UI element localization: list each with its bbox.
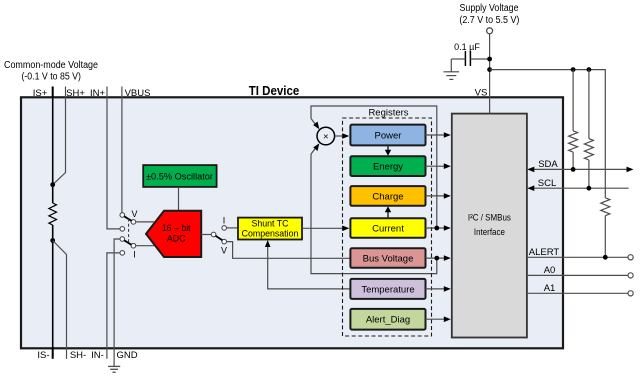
node ALERT R3	[603, 255, 608, 260]
register Current	[350, 218, 425, 238]
ground symbol	[108, 366, 120, 372]
wire SH- with slant	[53, 241, 67, 348]
wire supply rail	[490, 70, 606, 198]
register Temperature	[350, 279, 425, 299]
wire temperature to compensation	[268, 242, 351, 289]
svg-text:I: I	[223, 216, 226, 226]
svg-text:IS-: IS-	[37, 350, 49, 361]
svg-text:I: I	[133, 250, 136, 260]
node rail R1	[571, 67, 576, 72]
svg-text:V: V	[131, 209, 137, 219]
switch V select	[120, 213, 136, 232]
wire A0	[527, 274, 628, 276]
svg-text:A0: A0	[544, 265, 556, 276]
svg-text:IN+: IN+	[90, 88, 106, 99]
svg-text:SCL: SCL	[538, 178, 556, 189]
wire Energy to interface	[426, 165, 445, 167]
svg-text:SH-: SH-	[70, 350, 86, 361]
wire VS vertical	[489, 34, 491, 114]
svg-text:Temperature: Temperature	[361, 284, 414, 295]
wire Power to interface	[426, 134, 445, 136]
svg-text:ADC: ADC	[167, 234, 186, 244]
wire Current to Charge	[387, 212, 389, 218]
wire Power to Energy	[387, 145, 389, 150]
svg-text:×: ×	[323, 132, 329, 143]
svg-text:Bus Voltage: Bus Voltage	[363, 253, 414, 264]
wire bus voltage feedback to multiplier	[311, 154, 437, 274]
TI Device box	[21, 97, 563, 348]
node cap junction	[487, 57, 492, 62]
svg-text:(2.7 V to 5.5 V): (2.7 V to 5.5 V)	[459, 15, 519, 26]
wire Bus Voltage to interface	[426, 257, 445, 259]
resistor shunt	[49, 203, 57, 225]
wire Temperature to interface	[426, 288, 445, 290]
node current junction	[434, 226, 439, 231]
svg-text:IN-: IN-	[91, 350, 104, 361]
resistor R2 SCL pullup	[588, 70, 590, 139]
svg-text:0.1 µF: 0.1 µF	[454, 42, 480, 52]
pin IN+	[106, 87, 108, 99]
register Charge	[350, 186, 425, 206]
wire IN- to switch	[107, 253, 120, 347]
svg-text:V: V	[221, 246, 227, 256]
wire IS- vertical	[52, 225, 54, 347]
wire Charge to interface	[426, 195, 445, 197]
svg-text:SH+: SH+	[66, 88, 85, 99]
interface block	[452, 114, 527, 338]
svg-text:Current: Current	[372, 223, 404, 234]
wire Alert_Diag to interface	[426, 318, 445, 320]
switch I select	[120, 237, 136, 256]
wire Current to interface	[426, 227, 445, 229]
svg-text:VBUS: VBUS	[125, 88, 151, 99]
wire GND to switch	[114, 239, 120, 347]
wire SCL	[529, 187, 629, 189]
wire IS+ vertical	[52, 98, 54, 203]
terminal A0	[628, 273, 633, 278]
register Energy	[350, 156, 425, 176]
pin SH+	[65, 87, 67, 99]
switch shunt/bus	[211, 226, 226, 244]
oscillator box	[143, 165, 216, 187]
svg-text:Energy: Energy	[373, 162, 403, 173]
node SDA R1	[571, 167, 576, 172]
pin SH-	[66, 347, 68, 359]
node SCL R2	[587, 186, 592, 191]
svg-text:SDA: SDA	[538, 159, 558, 170]
pin IS-	[52, 347, 54, 359]
svg-text:I²C / SMBus: I²C / SMBus	[468, 213, 511, 223]
wire multiplier to Power	[335, 135, 343, 137]
svg-text:Charge: Charge	[372, 191, 403, 202]
svg-text:16 – bit: 16 – bit	[162, 223, 191, 233]
svg-text:Shunt TC: Shunt TC	[251, 219, 289, 229]
wire switch V to ADC	[136, 221, 154, 223]
svg-text:GND: GND	[116, 350, 137, 361]
resistor R1 SDA pullup	[572, 70, 574, 131]
svg-text:TI Device: TI Device	[249, 84, 300, 98]
wire IN+ to switch	[107, 98, 120, 229]
node junction bottom	[50, 238, 55, 243]
ADC U1	[146, 211, 201, 257]
terminal A1	[628, 291, 633, 296]
svg-text:Alert_Diag: Alert_Diag	[366, 315, 410, 326]
ground symbol supply	[444, 72, 460, 80]
wire switch I to ADC	[136, 245, 154, 247]
svg-text:IS+: IS+	[33, 88, 48, 99]
wire A1	[527, 292, 628, 294]
wire SDA	[529, 168, 628, 170]
node bus voltage junction	[434, 256, 439, 261]
register Alert_Diag	[350, 309, 425, 330]
terminal ALERT	[628, 255, 633, 260]
node junction top	[50, 182, 55, 187]
wire current feedback to multiplier	[311, 106, 437, 227]
svg-text:Compensation: Compensation	[242, 229, 299, 239]
pin IS+	[52, 87, 54, 99]
resistor R3 ALERT pullup	[601, 198, 610, 216]
svg-text:Power: Power	[375, 130, 402, 141]
wire gang dashed	[128, 219, 130, 244]
svg-text:Interface: Interface	[474, 227, 505, 237]
terminal supply	[487, 28, 493, 34]
multiplier node	[317, 127, 335, 145]
wire SH+ with slant	[53, 98, 66, 185]
svg-text:Registers: Registers	[368, 108, 408, 119]
wire V contact to Bus Voltage	[227, 242, 351, 259]
wire I contact to compensation	[227, 227, 239, 229]
svg-text:Supply Voltage: Supply Voltage	[460, 3, 519, 14]
svg-text:±0.5% Oscillator: ±0.5% Oscillator	[146, 172, 213, 182]
svg-text:Common-mode Voltage: Common-mode Voltage	[4, 60, 98, 71]
wire VBUS to switch	[121, 98, 123, 213]
registers dashed box	[343, 118, 432, 336]
compensation box	[238, 218, 302, 240]
pin IN-	[106, 347, 108, 359]
register Power	[350, 125, 425, 146]
pin GND	[113, 347, 115, 366]
svg-text:A1: A1	[544, 283, 556, 294]
wire ALERT	[527, 256, 628, 258]
svg-text:ALERT: ALERT	[529, 247, 560, 258]
wire oscillator to ADC	[178, 187, 180, 211]
node rail junction	[487, 67, 492, 72]
pin VBUS	[121, 87, 123, 99]
svg-text:(-0.1 V to 85 V): (-0.1 V to 85 V)	[21, 72, 81, 83]
register Bus Voltage	[350, 248, 425, 267]
node rail R2	[587, 67, 592, 72]
wire compensation to Current	[302, 227, 343, 229]
wire ADC to switch	[201, 234, 211, 236]
svg-text:VS: VS	[475, 88, 488, 99]
